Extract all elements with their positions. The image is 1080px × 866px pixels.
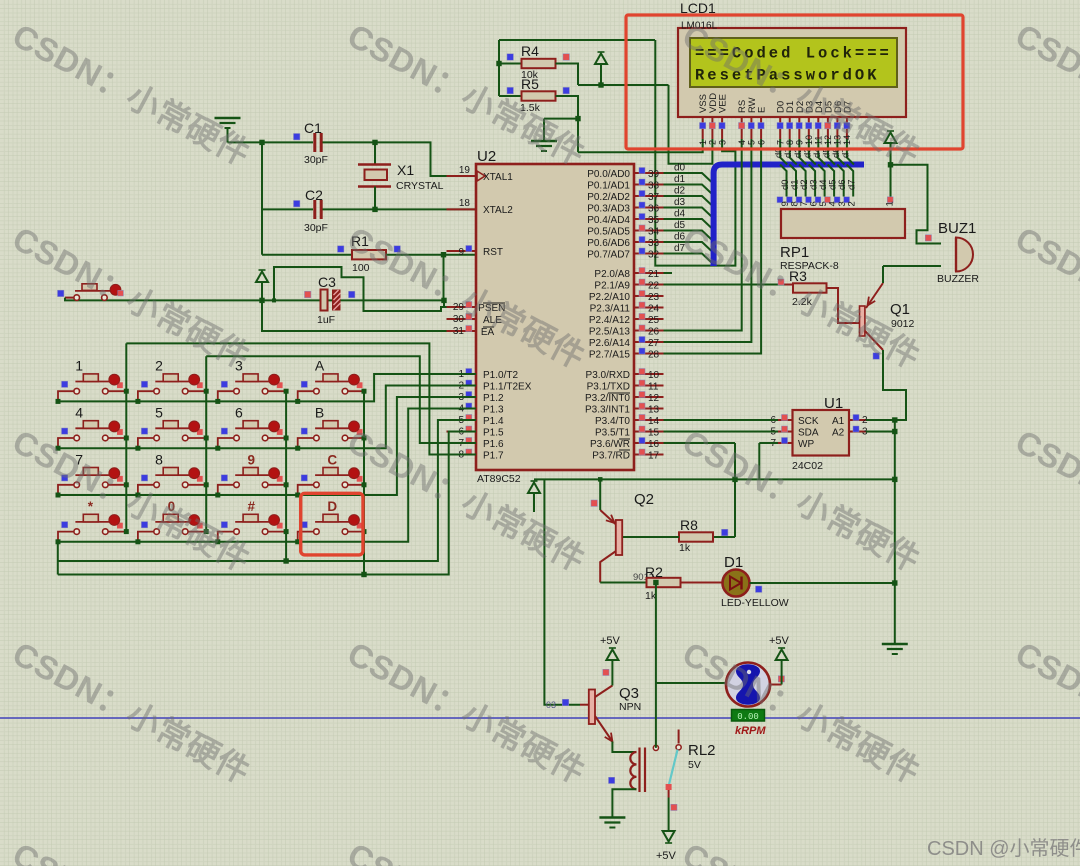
svg-text:12: 12 — [823, 135, 833, 145]
svg-text:d4: d4 — [674, 209, 686, 220]
push button 9 — [218, 468, 286, 496]
indicator (C3 +) — [305, 291, 311, 297]
wire gnd stub — [544, 118, 578, 120]
indicator (R4 left) — [507, 54, 513, 60]
svg-text:P3.5/T1: P3.5/T1 — [595, 428, 630, 439]
wire d1 (P0.1 to bus) — [664, 185, 712, 194]
svg-text:27: 27 — [648, 338, 660, 349]
indicator (button 1) — [62, 381, 68, 387]
indicator (R1 left) — [338, 246, 344, 252]
indicator P2.0 — [639, 268, 645, 274]
indicator P1.3 — [466, 403, 472, 409]
svg-text:11: 11 — [814, 136, 824, 145]
wire gnd stem — [543, 119, 545, 141]
indicator P2.3 — [639, 302, 645, 308]
svg-text:6: 6 — [756, 140, 766, 145]
svg-text:10: 10 — [804, 135, 814, 145]
svg-text:P1.7: P1.7 — [483, 451, 504, 462]
wire +5V to buzzer — [891, 165, 942, 244]
capacitor C3 (1uF polarized) — [321, 290, 341, 311]
junction (button 4 / row) — [56, 446, 61, 451]
svg-text:13: 13 — [648, 405, 660, 416]
indicator (Q3 collector) — [603, 669, 609, 675]
wire bus to RP1 pin 7 — [799, 165, 806, 197]
push button 3 — [218, 374, 286, 402]
wire R8 left (Q2 base) — [623, 536, 680, 538]
U2 pin P2.0 (21) — [634, 272, 664, 274]
junction (button 8 / column) — [204, 482, 209, 487]
power +5V (Q3) — [606, 648, 618, 686]
svg-text:3: 3 — [717, 140, 727, 145]
indicator (button 8) — [141, 475, 147, 481]
indicator LCD pin 14 — [844, 123, 850, 129]
horizontal page rule (blue) — [0, 717, 1080, 719]
wire R1 to RST — [386, 254, 476, 256]
svg-text:P3.3/INT1: P3.3/INT1 — [585, 405, 630, 416]
U2 pin RST (9) — [447, 250, 477, 252]
wire bus to RP1 pin 2 — [847, 165, 854, 197]
svg-text:P1.1/T2EX: P1.1/T2EX — [483, 382, 532, 393]
svg-text:1: 1 — [884, 201, 895, 206]
indicator P0.2 — [639, 191, 645, 197]
indicator P3.3 — [639, 403, 645, 409]
indicator P1.5 — [466, 426, 472, 432]
junction (D1/gnd) — [892, 580, 897, 585]
svg-text:2: 2 — [708, 140, 718, 145]
U2 pin P0.6 (33) — [634, 241, 664, 243]
junction (button 9 / row) — [215, 493, 220, 498]
indicator (button 4) — [62, 428, 68, 434]
U2 pin P0.1 (38) — [634, 184, 664, 186]
indicator LCD pin 4 — [739, 123, 745, 129]
wire R4/R5 left vertical — [498, 40, 500, 96]
junction (button C / row) — [295, 493, 300, 498]
svg-text:d5: d5 — [674, 220, 686, 231]
junction (rail/ground) — [892, 477, 897, 482]
wire LCD E to P2.7 — [664, 139, 762, 354]
indicator RP1 pin 7 — [796, 197, 802, 203]
junction (button 1 / column) — [124, 389, 129, 394]
junction (button * / column) — [124, 529, 129, 534]
indicator (R8) — [722, 529, 728, 535]
junction (button 0 / row) — [135, 539, 140, 544]
push button 5 — [138, 421, 206, 449]
wire buzzer bottom — [883, 265, 941, 267]
wire R4 left — [499, 63, 522, 65]
svg-text:16: 16 — [648, 439, 660, 450]
indicator (button 5) — [141, 428, 147, 434]
svg-text:24C02: 24C02 — [792, 460, 823, 472]
svg-text:VEE: VEE — [718, 94, 729, 113]
ground (U1/Q1) — [882, 644, 908, 654]
indicator (C3 -) — [349, 291, 355, 297]
svg-text:WP: WP — [798, 439, 814, 450]
svg-text:28: 28 — [648, 350, 660, 361]
indicator P1.7 — [466, 449, 472, 455]
indicator RP1 pin 5 — [815, 197, 821, 203]
svg-text:15: 15 — [648, 428, 660, 439]
svg-text:XTAL2: XTAL2 — [483, 205, 513, 216]
U2 pin P2.4 (25) — [634, 318, 664, 320]
wire LCD RS to P2.5 — [664, 139, 742, 331]
svg-text:31: 31 — [453, 326, 465, 337]
svg-text:P0.3/AD3: P0.3/AD3 — [587, 204, 630, 215]
push button 1 — [58, 374, 126, 402]
wire contact to +5V (down) — [668, 798, 670, 832]
indicator EA — [466, 326, 472, 332]
wire VEE top rail — [499, 39, 655, 41]
wire P3.5 to SDA — [664, 431, 779, 433]
indicator (R1 right) — [394, 246, 400, 252]
indicator U1 pin3 — [853, 426, 859, 432]
indicator (button B) — [301, 428, 307, 434]
power +5V (contact, down) — [663, 831, 675, 843]
wire R8 right — [713, 536, 736, 538]
svg-text:d2: d2 — [674, 186, 686, 197]
wire LCD D5 to bus — [828, 139, 835, 165]
indicator LCD pin 13 — [834, 123, 840, 129]
wire to motor left — [656, 682, 726, 684]
svg-text:d3: d3 — [674, 197, 686, 208]
svg-text:9: 9 — [458, 247, 464, 258]
svg-text:P0.4/AD4: P0.4/AD4 — [587, 215, 630, 226]
indicator P2.6 — [639, 337, 645, 343]
capacitor C2 — [315, 200, 321, 219]
indicator ALE — [466, 314, 472, 320]
svg-text:25: 25 — [648, 315, 660, 326]
svg-text:03: 03 — [546, 700, 556, 710]
indicator P0.0 — [639, 168, 645, 174]
indicator P2.1 — [639, 279, 645, 285]
svg-text:0.00: 0.00 — [737, 712, 759, 722]
U1 pins — [778, 420, 793, 443]
svg-text:P2.7/A15: P2.7/A15 — [589, 350, 631, 361]
resistor R5 — [522, 91, 556, 100]
indicator RP1 pin 6 — [806, 197, 812, 203]
LCD pin 4 RS — [741, 117, 743, 139]
diode D1 LED-YELLOW — [723, 570, 750, 597]
LCD pin 1 VSS — [702, 117, 704, 139]
motor rpm display — [732, 710, 765, 723]
indicator (relay coil) — [609, 777, 615, 783]
U2 pin P3.7 (17) — [634, 454, 664, 456]
indicator RP1 pin 2 — [844, 197, 850, 203]
svg-text:SDA: SDA — [798, 428, 819, 439]
svg-text:10: 10 — [648, 370, 660, 381]
junction (button D / column) — [362, 529, 367, 534]
U2 pin P0.0 (39) — [634, 172, 664, 174]
svg-text:LED-YELLOW: LED-YELLOW — [721, 597, 789, 609]
junction (button 5 / column) — [204, 436, 209, 441]
LCD pin 13 D6 — [836, 117, 838, 139]
svg-text:P3.4/T0: P3.4/T0 — [595, 416, 630, 427]
svg-text:P3.0/RXD: P3.0/RXD — [586, 370, 630, 381]
wire RST net vertical — [443, 255, 445, 301]
EEPROM U1 24C02 — [793, 410, 850, 456]
indicator P2.4 — [639, 314, 645, 320]
indicator P2.5 — [639, 325, 645, 331]
wire col2 to P1.6 — [206, 356, 476, 443]
svg-text:P1.4: P1.4 — [483, 416, 504, 427]
svg-text:18: 18 — [459, 198, 471, 209]
indicator P2.2 — [639, 291, 645, 297]
transistor Q1 (9012 PNP) — [860, 283, 884, 350]
junction (button 2 / column) — [204, 389, 209, 394]
power +5V (reset) — [256, 270, 268, 300]
svg-text:P2.5/A13: P2.5/A13 — [589, 327, 631, 338]
indicator LCD pin 5 — [748, 123, 754, 129]
wire keypad column 4 — [363, 391, 365, 574]
svg-text:7: 7 — [775, 140, 785, 145]
wire reset button left stub — [65, 297, 74, 299]
bus (LCD data bus) — [714, 165, 864, 267]
svg-text:23: 23 — [648, 292, 660, 303]
wire keypad column 3 — [285, 391, 287, 561]
indicator P0.5 — [639, 225, 645, 231]
U2 pin P3.3 (13) — [634, 408, 664, 410]
svg-text:39: 39 — [648, 169, 660, 180]
svg-text:BUZZER: BUZZER — [937, 273, 979, 285]
wire keypad row 3 to P1.2 — [58, 397, 476, 495]
svg-text:P0.7/AD7: P0.7/AD7 — [587, 250, 630, 261]
wire col4 to P1.5 — [58, 432, 476, 575]
U2 pin P1.4 (5) — [447, 419, 477, 421]
indicator LCD pin 1 — [700, 123, 706, 129]
svg-text:11: 11 — [648, 382, 659, 393]
wire P3.6 row — [664, 442, 736, 444]
U2 pin P3.2 (12) — [634, 396, 664, 398]
svg-text:R8: R8 — [680, 517, 698, 533]
indicator LCD pin 7 — [777, 123, 783, 129]
wire PSEN step net — [274, 267, 466, 311]
indicator (D1) — [756, 586, 762, 592]
indicator RP1 pin1 — [887, 197, 893, 203]
indicator (R5 left) — [507, 87, 513, 93]
svg-text:P1.3: P1.3 — [483, 405, 504, 416]
svg-text:38: 38 — [648, 181, 660, 192]
junction (col4/bottom) — [361, 572, 366, 577]
wire R5 left — [499, 95, 522, 97]
junction (button B / row) — [295, 446, 300, 451]
indicator (button #) — [221, 522, 227, 528]
U2 pin P1.1 (2) — [447, 385, 477, 387]
LCD pin 11 D4 — [817, 117, 819, 139]
U2 pin P2.7 (28) — [634, 353, 664, 355]
U2 pin P3.6 (16) — [634, 442, 664, 444]
indicator RP1 pin 9 — [777, 197, 783, 203]
push button 4 — [58, 421, 126, 449]
U2 pin P0.5 (34) — [634, 230, 664, 232]
junction (button 7 / row) — [56, 493, 61, 498]
svg-text:P0.2/AD2: P0.2/AD2 — [587, 192, 630, 203]
svg-text:19: 19 — [459, 165, 471, 176]
svg-text:*: * — [88, 499, 94, 514]
svg-text:C: C — [327, 452, 337, 467]
svg-text:1uF: 1uF — [317, 314, 335, 326]
junction (X1 bottom) — [372, 207, 377, 212]
wire WR/R8 vertical — [734, 443, 736, 537]
indicator (button 9) — [221, 475, 227, 481]
MCU U2 AT89C52 — [476, 164, 634, 470]
svg-text:P0.1/AD1: P0.1/AD1 — [587, 181, 630, 192]
indicator U1 pin7 — [782, 438, 788, 444]
indicator LCD pin 9 — [796, 123, 802, 129]
indicator LCD pin 3 — [719, 123, 725, 129]
wire LCD D6 to bus — [837, 139, 844, 165]
svg-text:NPN: NPN — [619, 701, 641, 713]
indicator (reset btn) — [118, 290, 124, 296]
push button 8 — [138, 468, 206, 496]
indicator U1 pin6 — [782, 415, 788, 421]
wire d4 (P0.4 to bus) — [664, 219, 712, 228]
junction (button 7 / column) — [124, 482, 129, 487]
wire LCD D3 to bus — [809, 139, 816, 165]
ground (top-left, bars above) — [215, 118, 241, 128]
LCD pin 6 E — [760, 117, 762, 139]
junction (Q2/rail) — [598, 477, 603, 482]
wire D1 to ground rail — [750, 582, 895, 584]
wire VEE contrast chain — [655, 40, 735, 266]
svg-text:CRYSTAL: CRYSTAL — [396, 180, 444, 192]
svg-text:8: 8 — [785, 140, 795, 145]
wire +5V rail — [534, 478, 895, 480]
wire LCD D7 to bus — [847, 139, 854, 165]
wire RP1 pin 1 — [890, 165, 892, 197]
U2 pin P2.6 (27) — [634, 341, 664, 343]
U2 pin XTAL1 (19) — [447, 175, 477, 177]
svg-text:A: A — [315, 358, 325, 374]
wire Q2 emitter to rail — [599, 479, 601, 510]
indicator (motor +) — [778, 676, 784, 682]
LCD pin 2 VDD — [711, 117, 713, 139]
wire Q3 emitter to coil — [612, 742, 636, 753]
wire C2 to XTAL2 — [323, 208, 477, 210]
wire col1 to P1.7 — [126, 343, 476, 454]
svg-text:RL2: RL2 — [688, 742, 716, 759]
junction (button 3 / row) — [215, 399, 220, 404]
indicator (button C) — [301, 475, 307, 481]
power +5V (motor) — [776, 648, 788, 685]
indicator LCD pin 6 — [758, 123, 764, 129]
junction (col3/bottom) — [283, 558, 288, 563]
junction (button 4 / column) — [124, 436, 129, 441]
wire C2 row left — [262, 208, 313, 210]
wire R5 right down — [556, 96, 579, 152]
wire bus to RP1 pin 9 — [780, 165, 787, 197]
push button 2 — [138, 374, 206, 402]
LCD pin 5 RW — [750, 117, 752, 139]
U2 pin P2.1 (22) — [634, 284, 664, 286]
resistor R8 — [679, 532, 713, 541]
wire R4 right — [556, 64, 579, 86]
indicator U1 pin2 — [853, 415, 859, 421]
svg-text:Q1: Q1 — [890, 301, 910, 318]
junction (+5V arrow base) — [259, 298, 264, 303]
U2 pin P2.5 (26) — [634, 330, 664, 332]
indicator (R5 right) — [563, 87, 569, 93]
junction (button 6 / row) — [215, 446, 220, 451]
svg-text:U2: U2 — [477, 148, 496, 165]
indicator LCD pin 11 — [815, 123, 821, 129]
wire d5 (P0.5 to bus) — [664, 231, 712, 240]
wire P2.1 to R3 — [664, 284, 785, 286]
LCD pin 9 D2 — [798, 117, 800, 139]
svg-text:2: 2 — [155, 358, 163, 374]
capacitor C1 — [315, 133, 321, 152]
wire A2 — [866, 431, 895, 433]
indicator LCD pin 10 — [806, 123, 812, 129]
resistor pack RP1 RESPACK-8 — [781, 209, 905, 238]
svg-text:D: D — [327, 499, 337, 514]
indicator P2.7 — [639, 348, 645, 354]
junction (button A / row) — [295, 399, 300, 404]
svg-text:Q2: Q2 — [634, 491, 654, 508]
resistor R1 — [352, 250, 386, 259]
svg-text:6: 6 — [235, 405, 243, 421]
U2 pin P3.1 (11) — [634, 385, 664, 387]
indicator P0.7 — [639, 248, 645, 254]
indicator P3.7 — [639, 449, 645, 455]
junction (button 5 / row) — [135, 446, 140, 451]
svg-text:1k: 1k — [679, 542, 691, 554]
indicator P3.4 — [639, 415, 645, 421]
svg-text:P2.6/A14: P2.6/A14 — [589, 338, 631, 349]
wire col3 to P1.4 — [58, 420, 476, 561]
junction (step wire) — [272, 298, 276, 302]
U2 pin P2.2 (23) — [634, 295, 664, 297]
push button # — [218, 514, 286, 542]
indicator (button A) — [301, 381, 307, 387]
junction (button A / column) — [362, 389, 367, 394]
svg-text:CSDN @小常硬件: CSDN @小常硬件 — [927, 837, 1080, 860]
wire EA net — [262, 300, 466, 331]
junction (button B / column) — [362, 436, 367, 441]
indicator (button 6) — [221, 428, 227, 434]
wire P3.4 to SCK — [664, 419, 779, 421]
svg-text:R5: R5 — [521, 76, 539, 92]
power +5V (RP1) — [885, 131, 897, 165]
svg-text:P1.2: P1.2 — [483, 393, 504, 404]
indicator P1.1 — [466, 380, 472, 386]
wire P2.0 stub — [664, 272, 673, 274]
indicator (button D) — [301, 522, 307, 528]
wire left rail vertical — [261, 142, 263, 254]
svg-text:d7: d7 — [847, 179, 858, 190]
junction (button # / row) — [215, 539, 220, 544]
indicator LCD pin 2 — [709, 123, 715, 129]
svg-text:A2: A2 — [832, 428, 845, 439]
wire to PSEN pin — [444, 300, 466, 307]
indicator P0.1 — [639, 179, 645, 185]
crystal X1 — [358, 142, 391, 209]
indicator RP1 pin 4 — [825, 197, 831, 203]
svg-text:35: 35 — [648, 215, 660, 226]
svg-text:P1.5: P1.5 — [483, 428, 504, 439]
wire d0 (P0.0 to bus) — [664, 173, 712, 182]
svg-text:37: 37 — [648, 192, 660, 203]
svg-text:24: 24 — [648, 304, 660, 315]
svg-text:d1: d1 — [674, 174, 686, 185]
svg-text:P2.2/A10: P2.2/A10 — [589, 292, 631, 303]
indicator (reset btn state) — [58, 290, 64, 296]
junction (button 2 / row) — [135, 399, 140, 404]
wire keypad column 1 — [125, 343, 127, 531]
junction (button 9 / column) — [284, 482, 289, 487]
wire C3 / reset row — [65, 298, 444, 301]
ground (relay) — [599, 818, 625, 828]
wire A1 — [866, 419, 895, 421]
indicator LCD pin 8 — [787, 123, 793, 129]
